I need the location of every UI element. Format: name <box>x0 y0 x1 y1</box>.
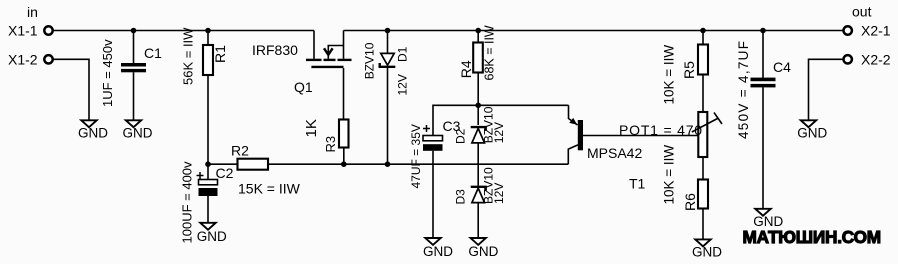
svg-text:C4: C4 <box>773 59 791 75</box>
potentiometer POT1 470 <box>619 112 722 157</box>
capacitor C2 <box>179 161 233 244</box>
wire Q1 substrate connector <box>328 46 343 59</box>
resistor R5 <box>661 45 708 105</box>
svg-text:C2: C2 <box>216 165 234 181</box>
svg-text:GND: GND <box>692 244 722 259</box>
wire R3 bottom lead <box>343 148 345 165</box>
svg-text:BZV10: BZV10 <box>363 42 377 79</box>
wire C3 top node <box>433 105 569 135</box>
svg-text:68K = IIW: 68K = IIW <box>482 25 496 80</box>
wire T1 base to POT1 <box>583 135 698 137</box>
ground R6 <box>692 239 722 259</box>
wire C3 to ground <box>432 151 434 237</box>
svg-text:56K = IIW: 56K = IIW <box>180 27 195 85</box>
wire R5 top lead <box>702 31 704 46</box>
resistor R6 <box>661 145 708 211</box>
svg-text:GND: GND <box>797 125 827 140</box>
svg-text:12V: 12V <box>396 74 410 95</box>
wire X2-2 to ground <box>809 59 844 119</box>
capacitor C3 <box>409 118 461 189</box>
wire C1 bottom lead <box>133 72 135 119</box>
wire R6 to ground <box>702 209 704 239</box>
wire X1-2 to ground <box>53 59 89 119</box>
svg-text:1UF = 450v: 1UF = 450v <box>100 39 115 107</box>
ground X1-2 <box>78 120 108 140</box>
svg-text:GND: GND <box>78 126 108 141</box>
Q1 drain-substrate-source contact bars <box>306 59 322 61</box>
svg-text:POT1 = 470: POT1 = 470 <box>619 122 703 138</box>
resistor R2 <box>231 143 301 197</box>
ground X2-2 <box>797 120 827 140</box>
wire R1 top lead <box>207 31 209 46</box>
wire T1 emitter lead <box>569 105 578 125</box>
svg-text:1K: 1K <box>303 119 320 137</box>
svg-text:10K = IIW: 10K = IIW <box>661 145 676 205</box>
svg-text:GND: GND <box>468 244 498 259</box>
wire top rail right segment <box>344 30 844 32</box>
svg-text:100UF = 400v: 100UF = 400v <box>179 161 194 244</box>
ground C1 <box>123 120 153 140</box>
wire Q1 drain lead <box>313 31 315 59</box>
junction D1 top rail <box>385 28 391 34</box>
wire D2 top lead <box>477 105 479 125</box>
svg-text:R3: R3 <box>323 136 338 153</box>
ground C3 <box>423 238 453 259</box>
svg-text:in: in <box>27 4 38 20</box>
wire POT1 to R6 <box>702 157 704 180</box>
ground C2 <box>197 223 227 244</box>
wire D1 bottom lead <box>387 67 389 164</box>
svg-text:D2: D2 <box>453 128 467 144</box>
transistor T1 MPSA42 <box>568 105 645 191</box>
junction R2 node <box>205 161 211 167</box>
junction D1 mid rail <box>385 161 391 167</box>
terminal X2-1 <box>844 23 891 39</box>
svg-text:X2-2: X2-2 <box>861 51 891 67</box>
junction C1 top rail <box>131 28 137 34</box>
svg-text:D1: D1 <box>396 46 410 62</box>
junction C4 top rail <box>760 28 766 34</box>
svg-text:out: out <box>852 4 872 20</box>
svg-text:МАТЮШИН.СОМ: МАТЮШИН.СОМ <box>743 227 881 247</box>
svg-text:R1: R1 <box>212 45 228 63</box>
svg-text:X1-1: X1-1 <box>8 23 38 39</box>
wire C1 top lead <box>133 31 135 64</box>
wire D1 top lead <box>387 31 389 54</box>
svg-text:12V: 12V <box>492 183 506 204</box>
svg-text:10K = IIW: 10K = IIW <box>661 45 676 105</box>
wire D2 to D3 <box>477 144 479 186</box>
wire R4 top lead <box>477 31 479 44</box>
svg-text:R5: R5 <box>681 61 697 79</box>
diode D3 zener BZV10 12V <box>453 167 505 205</box>
gate bar Q1 <box>311 66 343 68</box>
wire C4 top lead <box>762 31 764 79</box>
resistor R1 <box>180 27 228 85</box>
svg-text:C1: C1 <box>144 45 162 61</box>
resistor R3 <box>303 119 349 152</box>
wire mid rail R1 to R2 <box>208 163 238 165</box>
ground D3 <box>468 238 498 259</box>
wire C2 to ground <box>207 196 209 222</box>
svg-text:T1: T1 <box>629 175 646 191</box>
wire mid rail R2 to T1 <box>268 163 568 165</box>
wire Q1 source lead <box>343 31 345 59</box>
junction R5 top rail <box>700 28 706 34</box>
svg-text:GND: GND <box>197 229 227 244</box>
mosfet Q1 IRF830 <box>252 31 352 95</box>
svg-text:X1-2: X1-2 <box>8 51 38 67</box>
terminal X1-1 <box>8 23 53 39</box>
capacitor C4 <box>736 40 791 139</box>
wire R5 to POT1 <box>702 75 704 113</box>
svg-text:450V = 4,7UF: 450V = 4,7UF <box>736 40 751 139</box>
svg-text:R6: R6 <box>682 193 698 211</box>
terminal X1-2 <box>8 51 53 67</box>
svg-text:12V: 12V <box>492 122 506 143</box>
wire R1 bottom to mid rail <box>207 75 209 164</box>
wire top rail left segment <box>53 30 314 32</box>
svg-text:IRF830: IRF830 <box>252 42 298 58</box>
svg-text:MPSA42: MPSA42 <box>587 145 642 161</box>
svg-text:D3: D3 <box>453 189 467 205</box>
junction R1 top rail <box>205 28 211 34</box>
svg-text:GND: GND <box>123 125 153 140</box>
wire R4 bottom lead <box>477 73 479 106</box>
wire C4 to ground <box>762 87 764 208</box>
svg-text:R4: R4 <box>458 60 474 78</box>
terminal X2-2 <box>844 51 891 67</box>
svg-text:R2: R2 <box>231 143 249 159</box>
junction R3 mid rail <box>341 161 347 167</box>
svg-text:47UF = 35V: 47UF = 35V <box>409 124 423 188</box>
capacitor C1 <box>100 39 162 107</box>
svg-text:Q1: Q1 <box>294 79 313 95</box>
svg-text:15K = IIW: 15K = IIW <box>238 180 301 196</box>
junction R4 top rail <box>475 28 481 34</box>
resistor R4 <box>458 25 496 80</box>
wire Q1 gate to R3 <box>343 68 345 120</box>
diode D2 zener BZV10 12V <box>453 106 505 144</box>
wire D3 to ground <box>477 203 479 237</box>
wire T1 collector lead <box>568 145 578 164</box>
svg-text:X2-1: X2-1 <box>861 23 891 39</box>
diode D1 zener BZV10 12V <box>363 42 410 95</box>
junction R4 emitter node <box>475 103 481 109</box>
svg-text:GND: GND <box>423 244 453 259</box>
ground C4 <box>753 209 783 229</box>
